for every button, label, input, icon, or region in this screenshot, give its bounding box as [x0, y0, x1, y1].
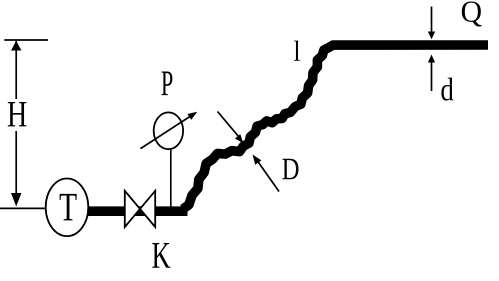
label D — [282, 159, 298, 179]
gauge arrowhead — [187, 112, 197, 120]
label K — [152, 243, 170, 268]
dimension line H lower segment — [15, 131, 17, 200]
label l (pipe length) — [294, 41, 300, 61]
label Q — [462, 1, 482, 26]
arrowhead up at H top — [11, 41, 21, 51]
rough rising pipe and top run — [183, 45, 488, 209]
d dimension lower arrowhead (up) — [428, 55, 435, 63]
dimension line H upper segment — [15, 41, 17, 99]
gauge stem line — [170, 148, 172, 207]
lower reference line (bottom of H dimension) — [0, 207, 45, 209]
label H — [8, 102, 27, 126]
pressure gauge circle — [154, 112, 183, 149]
d dimension lower arrow line — [431, 62, 433, 91]
gauge diagonal arrow line — [141, 116, 192, 149]
upper reference line (top of H dimension) — [4, 39, 48, 41]
thick pipe bottom run — [88, 206, 188, 216]
label d — [441, 78, 453, 101]
diameter arrow upper head — [235, 134, 243, 143]
arrowhead down at H bottom — [11, 193, 21, 207]
diameter arrow lower line — [258, 161, 280, 192]
diameter arrow upper line — [218, 112, 240, 138]
d dimension upper arrow line — [431, 7, 433, 33]
valve K (bowtie) — [125, 191, 155, 227]
label P — [162, 72, 173, 96]
circle instrument T — [46, 179, 89, 237]
d dimension upper arrowhead (down) — [428, 32, 435, 40]
diameter arrow lower head — [253, 155, 262, 165]
